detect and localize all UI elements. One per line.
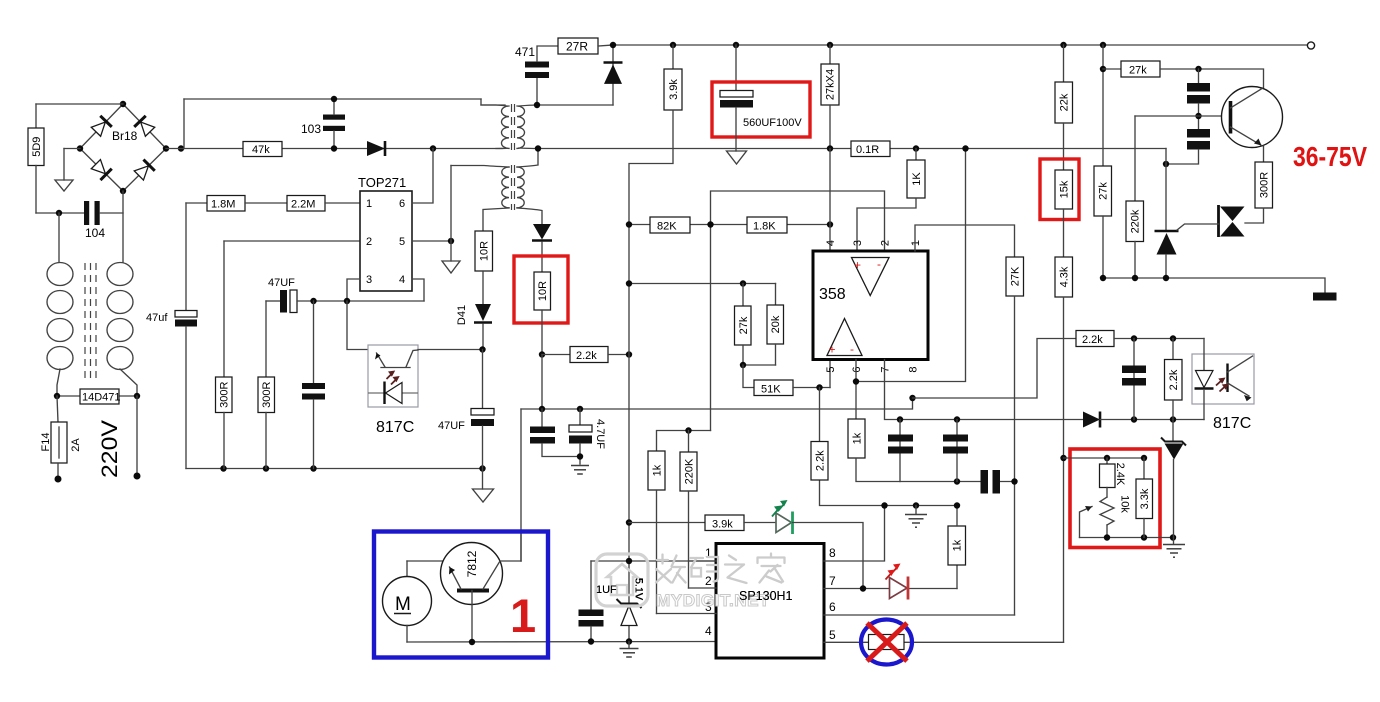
svg-text:51K: 51K [761, 384, 781, 396]
svg-text:3.9k: 3.9k [668, 79, 680, 100]
svg-text:4.3k: 4.3k [1059, 266, 1071, 287]
svg-text:Br18: Br18 [112, 129, 138, 143]
svg-text:2.2k: 2.2k [1168, 369, 1180, 390]
svg-text:47UF: 47UF [438, 420, 465, 432]
svg-text:10R: 10R [537, 281, 549, 301]
svg-text:F14: F14 [40, 433, 52, 452]
svg-text:5D9: 5D9 [31, 137, 43, 157]
svg-text:27R: 27R [566, 40, 588, 54]
svg-text:1.8K: 1.8K [753, 221, 776, 233]
svg-text:7: 7 [829, 574, 836, 588]
svg-text:1K: 1K [911, 172, 923, 186]
svg-text:5: 5 [399, 236, 405, 248]
svg-text:27kX4: 27kX4 [825, 69, 837, 100]
svg-text:M: M [395, 594, 411, 615]
svg-text:7: 7 [880, 366, 892, 372]
svg-text:4: 4 [825, 240, 837, 246]
svg-text:SP130H1: SP130H1 [739, 589, 793, 603]
svg-text:TOP271: TOP271 [358, 175, 406, 190]
svg-text:22k: 22k [1059, 93, 1071, 111]
svg-text:27K: 27K [1010, 266, 1022, 286]
svg-text:0.1R: 0.1R [856, 144, 879, 156]
svg-text:27k: 27k [1098, 182, 1110, 200]
svg-text:8: 8 [829, 546, 836, 560]
svg-text:6: 6 [399, 198, 405, 210]
svg-text:300R: 300R [261, 381, 273, 407]
svg-text:1: 1 [910, 240, 922, 246]
svg-text:D41: D41 [456, 305, 468, 325]
svg-text:14D471: 14D471 [82, 392, 121, 404]
svg-text:2.4K: 2.4K [1114, 463, 1126, 486]
svg-text:5: 5 [825, 366, 837, 372]
svg-text:47k: 47k [252, 144, 270, 156]
svg-text:104: 104 [85, 226, 105, 240]
svg-text:2: 2 [705, 574, 712, 588]
svg-text:6: 6 [851, 366, 863, 372]
svg-text:3: 3 [852, 240, 864, 246]
svg-text:2A: 2A [70, 438, 82, 452]
svg-text:2: 2 [880, 240, 892, 246]
svg-text:220V: 220V [97, 420, 122, 478]
svg-text:10k: 10k [1119, 495, 1131, 513]
svg-text:220k: 220k [1130, 209, 1142, 233]
svg-text:220K: 220K [683, 458, 695, 484]
svg-text:7812: 7812 [465, 550, 479, 577]
svg-text:2.2k: 2.2k [1082, 334, 1103, 346]
svg-text:1.8M: 1.8M [211, 199, 235, 211]
svg-text:103: 103 [301, 122, 321, 136]
svg-text:471: 471 [515, 45, 535, 59]
svg-text:27k: 27k [1129, 65, 1147, 77]
svg-text:+: + [854, 258, 861, 272]
svg-text:20k: 20k [770, 315, 782, 333]
svg-text:10R: 10R [479, 241, 491, 261]
svg-text:82K: 82K [657, 221, 677, 233]
svg-text:4: 4 [399, 274, 405, 286]
svg-text:1k: 1k [651, 464, 663, 476]
svg-text:2: 2 [366, 236, 372, 248]
svg-text:817C: 817C [376, 419, 414, 436]
svg-text:1: 1 [510, 589, 536, 642]
svg-text:6: 6 [829, 600, 836, 614]
svg-text:5.1V: 5.1V [633, 578, 645, 600]
svg-text:8: 8 [908, 366, 920, 372]
svg-text:15k: 15k [1059, 180, 1071, 198]
svg-text:300R: 300R [1259, 172, 1271, 198]
svg-text:1k: 1k [851, 432, 863, 444]
svg-text:300R: 300R [218, 381, 230, 407]
svg-text:2.2k: 2.2k [576, 350, 597, 362]
svg-text:3: 3 [366, 274, 372, 286]
svg-text:817C: 817C [1213, 415, 1251, 432]
svg-text:27k: 27k [738, 316, 750, 334]
svg-text:-: - [850, 342, 854, 356]
svg-text:+: + [829, 343, 836, 357]
svg-text:4.7UF: 4.7UF [594, 419, 606, 449]
svg-text:4: 4 [705, 624, 712, 638]
svg-text:2.2k: 2.2k [814, 450, 826, 471]
svg-text:1: 1 [366, 198, 372, 210]
svg-text:-: - [877, 257, 881, 271]
svg-text:5: 5 [829, 628, 836, 642]
svg-text:47UF: 47UF [268, 277, 295, 289]
svg-text:1k: 1k [952, 539, 964, 551]
svg-text:560UF100V: 560UF100V [743, 117, 802, 129]
svg-text:1UF: 1UF [596, 584, 617, 596]
svg-text:358: 358 [819, 286, 846, 303]
svg-text:3.9k: 3.9k [712, 519, 733, 531]
svg-text:2.2M: 2.2M [291, 199, 315, 211]
svg-text:36-75V: 36-75V [1293, 141, 1367, 172]
svg-text:3.3k: 3.3k [1139, 488, 1151, 509]
svg-text:47uf: 47uf [146, 312, 168, 324]
